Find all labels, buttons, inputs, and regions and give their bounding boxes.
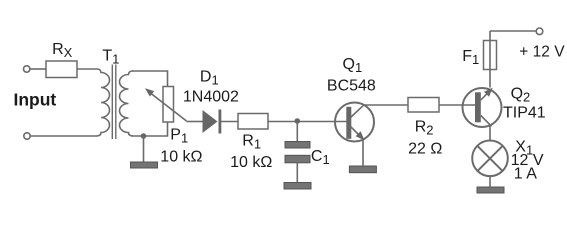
transformer T1 primary winding: [97, 69, 110, 136]
lamp X1: [472, 141, 508, 177]
node (secondary-ground junction): [141, 133, 147, 139]
svg-text:F1: F1: [462, 48, 479, 67]
wire: [489, 127, 491, 141]
wire: [30, 135, 97, 137]
wire: [364, 104, 408, 106]
resistor R1: [238, 114, 268, 130]
svg-text:C1: C1: [311, 148, 330, 167]
svg-text:T1: T1: [102, 48, 119, 67]
input terminal (top): [24, 66, 30, 72]
resistor RX: [46, 61, 77, 78]
svg-text:22 Ω: 22 Ω: [408, 141, 442, 158]
svg-text:10 kΩ: 10 kΩ: [160, 149, 202, 166]
wire: [296, 122, 298, 142]
capacitor C1: [285, 142, 310, 163]
transistor Q2: [463, 88, 502, 127]
wire: [268, 121, 347, 123]
wire: [490, 30, 536, 32]
diode D1: [203, 110, 222, 134]
wire: [221, 121, 238, 123]
ground (Q1): [349, 166, 376, 173]
svg-text:P1: P1: [170, 127, 188, 146]
svg-text:Q2: Q2: [511, 85, 531, 104]
transformer T1 secondary winding: [120, 71, 134, 136]
wire: [187, 121, 203, 123]
svg-text:Q1: Q1: [343, 56, 363, 75]
wire: [143, 136, 145, 162]
svg-text:RX: RX: [52, 41, 73, 60]
wire: [132, 71, 168, 87]
wire: [362, 140, 364, 166]
resistor R2: [408, 98, 439, 113]
wire: [296, 163, 298, 183]
fuse F1: [484, 41, 497, 70]
svg-text:1 A: 1 A: [514, 166, 537, 183]
wire: [132, 122, 168, 136]
ground (C1): [284, 183, 311, 190]
svg-text:10 kΩ: 10 kΩ: [230, 154, 272, 171]
svg-text:R2: R2: [415, 118, 434, 137]
potentiometer P1 wiper arrow: [145, 88, 187, 121]
potentiometer P1 body: [163, 87, 174, 123]
svg-text:R1: R1: [242, 132, 261, 151]
svg-text:Input: Input: [14, 90, 57, 110]
svg-text:D1: D1: [200, 68, 219, 87]
transistor Q1: [335, 103, 374, 142]
ground (lamp): [477, 187, 504, 193]
ground (transformer): [131, 162, 158, 168]
wire: [439, 104, 475, 106]
input terminal (bottom): [24, 133, 30, 139]
wire: [77, 68, 97, 70]
transformer T1 core: [112, 65, 116, 140]
svg-text:1N4002: 1N4002: [183, 89, 239, 106]
node (R1 / C1 / Q1 base junction): [295, 118, 301, 124]
wire: [30, 68, 46, 70]
wire: [489, 176, 491, 187]
wire: [489, 31, 491, 88]
svg-text:+ 12 V: + 12 V: [519, 44, 565, 61]
terminal +12V: [536, 28, 543, 35]
svg-text:BC548: BC548: [327, 78, 376, 95]
svg-text:TIP41: TIP41: [503, 105, 546, 122]
